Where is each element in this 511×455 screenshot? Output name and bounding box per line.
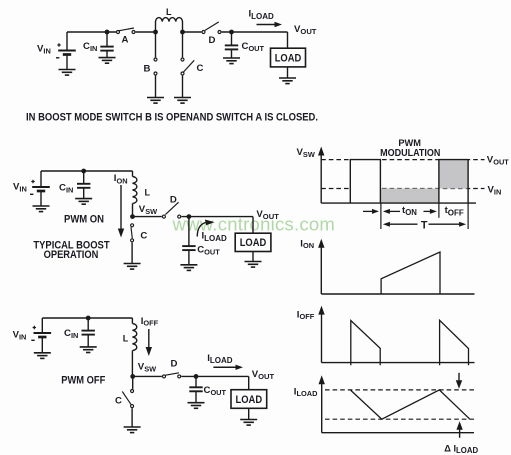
node junction after D (PWM OFF) (194, 374, 199, 379)
ground (COUT PWM OFF) (188, 403, 205, 409)
wire COUT stem mid (188, 217, 190, 265)
gray area tON (381, 189, 439, 204)
node V_SW junction (PWM OFF) (130, 374, 135, 379)
baseline ION chart (321, 293, 474, 295)
ground (switch B) (147, 98, 164, 104)
svg-text:VSW: VSW (139, 204, 157, 216)
ground (CIN PWM ON) (75, 199, 92, 205)
tick tON end (438, 203, 440, 218)
svg-text:IOFF: IOFF (297, 309, 315, 321)
wire switch C to ground mid (131, 242, 133, 263)
tick tON start (380, 203, 382, 229)
node junction CIN (PWM OFF) (86, 316, 91, 321)
svg-text:L: L (145, 188, 151, 198)
ground (COUT PWM ON) (180, 265, 197, 271)
battery V_IN (56, 43, 76, 58)
svg-text:PWM OFF: PWM OFF (61, 374, 105, 386)
wire switch C stem (182, 32, 184, 98)
wire coil to VSW bottom (131, 351, 133, 377)
ground (LOAD) (279, 78, 296, 84)
svg-text:VIN: VIN (37, 44, 51, 56)
dashed line VIN level (321, 188, 484, 190)
ground (LOAD PWM ON) (245, 262, 262, 268)
wire LOAD to ground bottom (248, 408, 250, 419)
arrow T left (383, 222, 418, 227)
svg-text:VSW: VSW (138, 362, 156, 374)
capacitor C_IN (PWM OFF) (82, 331, 95, 335)
svg-text:tOFF: tOFF (445, 205, 464, 217)
axis ION vertical with arrow (318, 239, 324, 294)
svg-text:D: D (209, 35, 216, 46)
ground (CIN) (99, 58, 116, 64)
svg-text:VOUT: VOUT (256, 209, 279, 221)
svg-text:C: C (140, 231, 147, 242)
inductor L (156, 18, 183, 32)
arrow small left of tON (363, 209, 379, 214)
capacitor C_OUT (PWM OFF) (189, 387, 202, 391)
ground (switch C PWM OFF) (124, 427, 141, 433)
baseline ILOAD chart (322, 432, 474, 434)
node V_SW junction (PWM ON) (130, 214, 135, 219)
wire switch D to LOAD corner bottom (181, 376, 248, 389)
wire COUT stem bottom (195, 376, 197, 402)
LOAD box (PWM OFF) (231, 390, 267, 409)
switch D (PWM OFF, closed) (163, 373, 181, 378)
svg-text:IN BOOST MODE SWITCH B IS OPEN: IN BOOST MODE SWITCH B IS OPENAND SWITCH… (26, 112, 318, 124)
baseline IOFF chart (322, 362, 475, 364)
switch D (open) (202, 22, 221, 34)
wire VSW to switch C bottom (132, 376, 134, 389)
svg-text:COUT: COUT (242, 41, 265, 53)
ground (switch C PWM ON) (124, 264, 141, 270)
svg-text:VIN: VIN (13, 330, 27, 342)
wire battery VIN stem (66, 32, 68, 70)
svg-text:LOAD: LOAD (236, 394, 263, 406)
arrow I_LOAD (257, 22, 283, 27)
wire COUT stem (231, 32, 233, 58)
svg-text:Δ ILOAD: Δ ILOAD (444, 444, 478, 455)
axis IOFF vertical with arrow (318, 306, 324, 363)
wire switch D to junction (181, 217, 253, 234)
dashed line ILOAD min (325, 418, 476, 420)
svg-text:D: D (171, 358, 178, 369)
svg-text:VIN: VIN (488, 184, 502, 196)
wire coil to VSW (132, 204, 134, 217)
waveform pulse 1 (350, 160, 380, 204)
dashed line VOUT level (321, 159, 484, 161)
gray area tOFF (439, 160, 468, 189)
svg-text:C: C (197, 63, 204, 74)
svg-text:B: B (144, 64, 151, 75)
inductor L (PWM ON, vertical) (133, 177, 137, 204)
svg-text:VOUT: VOUT (252, 369, 275, 381)
wire top PWM OFF (42, 318, 132, 324)
wire CIN stem (106, 32, 108, 58)
inductor L (PWM OFF, vertical) (132, 324, 136, 351)
wire switch C to ground bottom (131, 408, 133, 427)
svg-text:CIN: CIN (64, 328, 78, 340)
waveform ILOAD triangle (350, 390, 470, 419)
LOAD box (271, 48, 306, 67)
svg-text:COUT: COUT (204, 385, 227, 397)
dashed line ILOAD max (325, 389, 476, 391)
axis VSW vertical with arrow (318, 147, 324, 204)
svg-text:MODULATION: MODULATION (380, 148, 440, 159)
svg-text:tON: tON (402, 205, 417, 217)
capacitor C_IN (PWM ON) (77, 184, 90, 188)
svg-text:ILOAD: ILOAD (249, 9, 275, 21)
svg-text:CIN: CIN (59, 182, 73, 194)
battery V_IN (PWM OFF) (31, 326, 51, 341)
svg-text:ION: ION (114, 173, 128, 186)
ground (COUT) (223, 58, 240, 64)
svg-text:OPERATION: OPERATION (44, 249, 99, 261)
wire switch A to node (136, 31, 156, 33)
tick tOFF end (467, 203, 469, 229)
arrow T right (429, 222, 467, 227)
svg-text:VSW: VSW (297, 147, 315, 159)
waveform ION ramp (381, 252, 440, 294)
svg-text:LOAD: LOAD (240, 237, 267, 249)
wire switch D to VOUT corner (222, 32, 288, 48)
capacitor C_OUT (PWM ON) (182, 246, 195, 250)
wire CIN stem mid (83, 171, 85, 199)
svg-text:VOUT: VOUT (487, 155, 509, 167)
arrow I_LOAD (PWM OFF) (213, 365, 243, 370)
switch C (PWM ON, closed) (131, 224, 134, 242)
wire top main (67, 31, 116, 33)
svg-text:L: L (123, 334, 129, 344)
node L right (180, 30, 185, 35)
ground (VIN battery) (59, 70, 76, 76)
wire battery stem bottom (41, 318, 43, 353)
node COUT junction (229, 30, 234, 35)
axis ILOAD vertical with arrow (319, 375, 325, 432)
wire LOAD to ground (287, 67, 289, 78)
wire top PWM ON (41, 171, 133, 177)
arrow tON left (383, 209, 400, 214)
wire VSW to switch D (135, 216, 162, 218)
waveform IOFF sawtooth 2 (440, 320, 469, 365)
svg-text:VIN: VIN (13, 182, 27, 194)
svg-text:ILOAD: ILOAD (294, 387, 318, 399)
svg-text:L: L (166, 7, 172, 17)
svg-text:ILOAD: ILOAD (207, 353, 233, 365)
svg-text:D: D (170, 194, 177, 205)
wire LOAD to ground mid (252, 252, 254, 262)
wire battery stem mid (40, 171, 42, 206)
ground (VIN PWM OFF) (34, 353, 51, 359)
switch B (open) (154, 58, 157, 75)
ground (LOAD PWM OFF) (240, 420, 257, 426)
svg-text:C: C (115, 396, 122, 407)
node junction CIN (105, 30, 110, 35)
svg-text:CIN: CIN (83, 41, 97, 53)
baseline VSW chart (321, 202, 476, 204)
arrow I_OFF down (146, 329, 152, 356)
wire CIN stem bottom (87, 318, 89, 347)
arrow I_ON down (118, 185, 124, 238)
svg-text:T: T (421, 219, 428, 231)
node junction after D (PWM ON) (187, 214, 192, 219)
switch A (117, 28, 136, 34)
switch C (PWM OFF, open) (122, 390, 133, 408)
svg-text:VOUT: VOUT (294, 24, 317, 36)
arrow ripple up (456, 421, 462, 438)
svg-text:A: A (122, 35, 129, 46)
svg-text:PWM ON: PWM ON (64, 213, 104, 225)
capacitor C_IN (100, 47, 113, 51)
ground (CIN PWM OFF) (80, 347, 97, 353)
switch D (PWM ON, open) (162, 202, 180, 218)
waveform IOFF sawtooth 1 (351, 321, 380, 366)
wire switch B stem (155, 32, 157, 98)
svg-text:IOFF: IOFF (141, 316, 159, 328)
wire node to switch D (183, 31, 202, 33)
capacitor C_OUT (225, 45, 238, 49)
ground (VIN PWM ON) (33, 206, 50, 212)
LOAD box (PWM ON) (235, 233, 271, 251)
wire VSW to switch D bottom (135, 375, 162, 377)
arrow tON right (424, 209, 437, 214)
arrow I_LOAD curved (PWM ON) (197, 220, 214, 237)
svg-text:LOAD: LOAD (275, 52, 302, 64)
switch C (open) (181, 58, 194, 75)
battery V_IN (PWM ON) (30, 180, 50, 195)
node L left (153, 30, 158, 35)
waveform pulse tOFF outline (439, 160, 468, 204)
node junction CIN (PWM ON) (81, 169, 86, 174)
arrow ripple down (456, 373, 462, 389)
svg-text:COUT: COUT (197, 245, 220, 257)
svg-text:ION: ION (300, 239, 314, 251)
ground (switch C) (174, 98, 191, 104)
